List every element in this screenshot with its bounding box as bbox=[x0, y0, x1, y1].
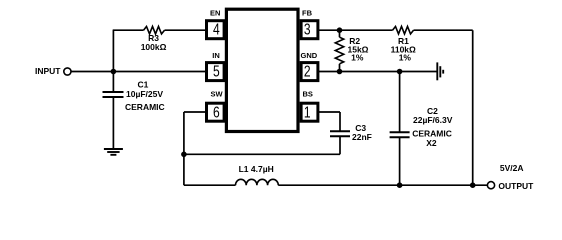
svg-text:1: 1 bbox=[304, 103, 311, 121]
svg-text:INPUT: INPUT bbox=[35, 66, 61, 76]
junction: output node bbox=[470, 182, 476, 188]
svg-text:5: 5 bbox=[213, 62, 220, 80]
ground: left earth symbol bbox=[104, 149, 123, 155]
junction: SW / C3 return node bbox=[181, 152, 187, 158]
svg-text:GND: GND bbox=[301, 51, 318, 60]
pin 6 box bbox=[207, 103, 225, 121]
svg-text:6: 6 bbox=[213, 103, 220, 121]
wire: bottom rail right segment bbox=[278, 184, 487, 186]
ground: right earth symbol (rotated) bbox=[437, 62, 443, 80]
pin 5 box bbox=[207, 63, 225, 81]
wire: output rail vertical bbox=[472, 30, 474, 185]
pin 1 box bbox=[301, 103, 318, 121]
wire: SW vertical down to bottom rail bbox=[183, 112, 185, 185]
resistor R2 bbox=[335, 37, 343, 64]
wire: pin 6 SW stub bbox=[184, 111, 205, 113]
svg-text:FB: FB bbox=[302, 9, 313, 18]
wire: R1 to output rail corner bbox=[414, 29, 473, 31]
svg-text:OUTPUT: OUTPUT bbox=[498, 181, 534, 191]
svg-text:CERAMIC: CERAMIC bbox=[412, 129, 452, 139]
wire: pin 2 GND to earth bbox=[319, 71, 437, 73]
IC U1 body bbox=[226, 9, 298, 131]
resistor R1 bbox=[393, 26, 414, 34]
svg-text:1%: 1% bbox=[399, 53, 412, 63]
wire: input node down to C1 bbox=[112, 72, 114, 92]
inductor L1 bbox=[236, 179, 279, 185]
svg-text:4: 4 bbox=[213, 20, 220, 38]
capacitor C1 bbox=[103, 91, 124, 93]
svg-text:2: 2 bbox=[304, 62, 311, 80]
svg-text:3: 3 bbox=[304, 20, 311, 38]
wire: C1 down to ground bbox=[112, 98, 114, 149]
wire: R2 top stub bbox=[339, 30, 341, 37]
svg-text:22µF/6.3V: 22µF/6.3V bbox=[413, 115, 453, 125]
svg-text:X2: X2 bbox=[426, 138, 437, 148]
svg-text:C1: C1 bbox=[138, 79, 149, 89]
wire: input terminal to pin 5 bbox=[71, 71, 205, 73]
capacitor C2 bbox=[390, 131, 410, 133]
wire: R3 to pin 4 bbox=[165, 29, 206, 31]
junction: C2 bottom node bbox=[397, 182, 403, 188]
svg-text:100kΩ: 100kΩ bbox=[141, 42, 167, 52]
pin 3 box bbox=[301, 21, 318, 39]
svg-text:IN: IN bbox=[212, 51, 220, 60]
svg-text:BS: BS bbox=[303, 89, 313, 98]
svg-text:L1 4.7µH: L1 4.7µH bbox=[239, 164, 274, 174]
junction: bottom of R2 bbox=[337, 69, 343, 75]
OUTPUT terminal circle bbox=[487, 182, 494, 189]
wire: R2 bottom stub bbox=[339, 64, 341, 72]
junction: C2 top node bbox=[397, 69, 403, 75]
wire: pin 1 BS stub bbox=[319, 111, 340, 113]
wire: top-left horizontal from branch to R3 bbox=[113, 29, 144, 31]
INPUT terminal circle bbox=[64, 68, 71, 75]
svg-text:SW: SW bbox=[211, 89, 224, 98]
svg-text:1%: 1% bbox=[351, 53, 364, 63]
svg-text:EN: EN bbox=[210, 9, 220, 18]
wire: pin 3 to R1 feedback rail bbox=[319, 29, 393, 31]
pin 4 box bbox=[207, 21, 225, 39]
wire: EN top-left vertical from R3 branch down to input node bbox=[112, 30, 114, 71]
junction: FB node top of R2 bbox=[337, 27, 343, 33]
wire: BS down to C3 bbox=[339, 112, 341, 131]
resistor R3 bbox=[144, 26, 165, 34]
svg-text:10µF/25V: 10µF/25V bbox=[126, 89, 163, 99]
capacitor C3 bbox=[330, 130, 350, 132]
svg-text:CERAMIC: CERAMIC bbox=[125, 102, 165, 112]
wire: bottom rail left segment bbox=[184, 184, 236, 186]
pin 2 box bbox=[301, 63, 318, 81]
junction: input node bbox=[111, 69, 117, 75]
wire: C3 return to SW node bbox=[184, 153, 340, 155]
wire: C3 bottom down bbox=[339, 137, 341, 154]
svg-text:5V/2A: 5V/2A bbox=[500, 163, 524, 173]
svg-text:22nF: 22nF bbox=[352, 132, 372, 142]
wire: C2 branch bottom bbox=[399, 138, 401, 185]
wire: C2 branch top bbox=[399, 72, 401, 132]
